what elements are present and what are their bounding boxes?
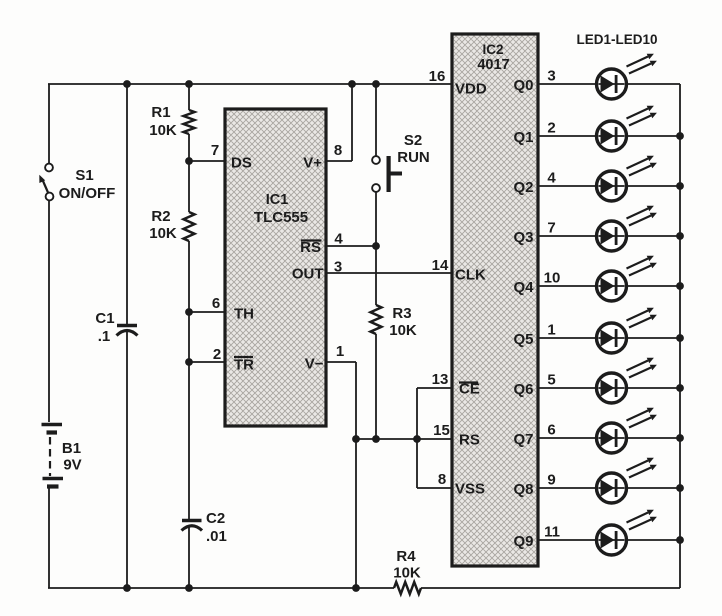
node junction LED2 cathode bus [676, 132, 684, 140]
node junction V- riser bottom rail [352, 584, 360, 592]
svg-text:10K: 10K [393, 565, 421, 582]
wire V+ riser to top rail [351, 84, 353, 161]
wire top supply rail (V+ net) [48, 83, 452, 85]
svg-text:V+: V+ [303, 155, 322, 172]
node junction LED4 cathode bus [676, 232, 684, 240]
svg-text:R1: R1 [151, 104, 170, 121]
svg-text:4: 4 [334, 231, 343, 248]
node junction V- riser / RS15 wire [352, 435, 360, 443]
svg-text:RS: RS [459, 432, 480, 449]
svg-text:13: 13 [432, 371, 449, 388]
node junction LED6 cathode bus [676, 334, 684, 342]
svg-text:Q4: Q4 [514, 279, 535, 296]
wire V+ pin 8 lead [326, 160, 352, 162]
svg-text:15: 15 [433, 422, 450, 439]
svg-text:Q9: Q9 [514, 533, 534, 550]
node junction CE-VSS tie / RS15 wire [413, 435, 421, 443]
wire TR pin 2 lead [189, 361, 225, 363]
node junction LED5 cathode bus [676, 282, 684, 290]
node junction LED7 cathode bus [676, 384, 684, 392]
svg-text:DS: DS [231, 155, 252, 172]
wire left rail lower (battery - down) [48, 488, 50, 588]
svg-text:Q2: Q2 [514, 179, 534, 196]
wire CE/VSS vertical tie [416, 388, 418, 488]
wire Q6 output row [538, 387, 680, 389]
pushbutton S2 top terminal [372, 156, 380, 164]
svg-text:IC2: IC2 [482, 42, 503, 57]
wire Q1 output row [538, 135, 680, 137]
battery B1 plate 4 (short) [47, 484, 59, 488]
wire RS pin 4 lead [326, 245, 376, 247]
node junction LED10 cathode bus [676, 536, 684, 544]
svg-text:4017: 4017 [477, 57, 509, 73]
svg-text:10K: 10K [149, 122, 177, 139]
LED LED4 [597, 206, 657, 251]
battery B1 plate 2 (short) [47, 430, 58, 434]
svg-text:TLC555: TLC555 [254, 209, 308, 226]
LED LED6 [597, 308, 657, 353]
LED LED1 [597, 54, 657, 99]
wire Q7 output row [538, 437, 680, 439]
node junction C1 top rail [123, 80, 131, 88]
wire S2 rail from top rail [375, 84, 377, 156]
node junction C2 bottom rail [185, 584, 193, 592]
wire bottom ground rail left of R4 [48, 587, 394, 589]
wire V- riser to ground [355, 362, 357, 588]
IC U1 TLC555 timer body (IC1) [225, 109, 326, 426]
svg-text:10: 10 [544, 270, 561, 287]
svg-text:6: 6 [212, 295, 220, 312]
node junction LED9 cathode bus [676, 484, 684, 492]
svg-text:R4: R4 [396, 548, 416, 565]
switch S1 lever arrow [43, 181, 48, 193]
svg-text:7: 7 [211, 142, 219, 159]
svg-text:10K: 10K [149, 225, 177, 242]
switch S1 top terminal [45, 164, 53, 172]
wire left rail upper (battery + to S1) [48, 84, 50, 163]
node junction R3 / RS15 wire [372, 435, 380, 443]
capacitor C1 top plate [117, 324, 137, 327]
svg-text:7: 7 [547, 220, 555, 237]
svg-text:C1: C1 [95, 310, 114, 327]
svg-text:1: 1 [547, 322, 555, 339]
svg-text:4: 4 [547, 170, 556, 187]
pushbutton S2 bottom terminal [372, 184, 380, 192]
wire TH pin 6 lead [189, 311, 225, 313]
svg-text:11: 11 [544, 524, 560, 541]
wire DS pin 7 lead [189, 160, 225, 162]
wire C1 branch upper [126, 84, 128, 325]
node junction RS4 / S2 / R3 [372, 242, 380, 250]
resistor R1 [184, 110, 195, 134]
svg-text:9: 9 [547, 472, 555, 489]
svg-text:1: 1 [336, 343, 344, 360]
pushbutton S2 actuator stem [391, 172, 403, 176]
wire R1 rail top segment [188, 84, 190, 110]
node junction TH [185, 308, 193, 316]
capacitor C2 curved plate [182, 526, 203, 531]
node junction TR [185, 358, 193, 366]
LED LED3 [597, 156, 657, 201]
wire LED cathode bus vertical [679, 84, 681, 588]
switch S1 bottom terminal [46, 193, 54, 201]
node junction S2 top rail [372, 80, 380, 88]
battery B1 dashed cell link [49, 437, 51, 476]
svg-text:CLK: CLK [455, 267, 486, 284]
svg-text:R3: R3 [392, 305, 411, 322]
svg-text:.1: .1 [98, 328, 111, 345]
wire Q8 output row [538, 487, 680, 489]
wire C1 branch lower [126, 332, 128, 588]
IC U2 4017 decade counter body (IC2) [452, 34, 538, 566]
svg-text:8: 8 [334, 142, 342, 159]
wire VSS pin 8 lead [417, 487, 452, 489]
wire Q2 output row [538, 185, 680, 187]
node junction V+ riser top rail [348, 80, 356, 88]
svg-text:9V: 9V [63, 457, 81, 474]
svg-text:C2: C2 [206, 510, 225, 527]
svg-text:S1: S1 [75, 167, 93, 184]
wire R1 to DS node [188, 134, 190, 212]
wire OUT pin 3 to CLK pin 14 [326, 272, 452, 274]
svg-text:TR: TR [234, 357, 254, 374]
wire R3 lower lead to RS15 wire [375, 334, 377, 439]
svg-text:VSS: VSS [455, 481, 485, 498]
svg-text:.01: .01 [206, 528, 227, 545]
LED LED2 [597, 106, 657, 151]
wire Q4 output row [538, 285, 680, 287]
wire Q0 output row [538, 83, 680, 85]
pushbutton S2 actuator bar [387, 156, 391, 192]
svg-text:6: 6 [547, 422, 555, 439]
wire S2 bottom to RS4 node [375, 192, 377, 246]
svg-text:Q5: Q5 [514, 331, 534, 348]
svg-text:Q3: Q3 [514, 229, 534, 246]
wire Q5 output row [538, 337, 680, 339]
svg-text:LED1-LED10: LED1-LED10 [576, 32, 657, 47]
capacitor C2 top plate [182, 519, 202, 522]
wire C2 to ground rail [188, 527, 190, 588]
node junction LED3 cathode bus [676, 182, 684, 190]
wire CE pin 13 lead [417, 387, 452, 389]
svg-text:ON/OFF: ON/OFF [59, 185, 116, 202]
svg-text:3: 3 [547, 68, 555, 85]
battery B1 plate 1 (long) [42, 423, 63, 426]
svg-text:10K: 10K [389, 322, 417, 339]
svg-text:16: 16 [429, 68, 446, 85]
wire left rail middle (S1 to battery +) [48, 200, 50, 422]
svg-text:IC1: IC1 [266, 192, 289, 208]
wire R2 to TH/TR/C2 rail [188, 241, 190, 519]
wire bottom ground rail right of R4 [421, 587, 680, 589]
resistor R4 [394, 582, 421, 594]
svg-text:Q8: Q8 [514, 481, 534, 498]
node junction DS / R1 / R2 [185, 157, 193, 165]
LED LED7 [597, 358, 657, 403]
wire Q3 output row [538, 235, 680, 237]
svg-text:Q1: Q1 [514, 129, 534, 146]
svg-text:OUT: OUT [292, 266, 324, 283]
resistor R2 [184, 212, 195, 241]
svg-text:RUN: RUN [397, 149, 430, 166]
node junction LED8 cathode bus [676, 434, 684, 442]
svg-text:S2: S2 [404, 132, 422, 149]
LED LED5 [597, 256, 657, 301]
svg-text:R2: R2 [151, 208, 170, 225]
svg-text:V−: V− [305, 356, 324, 373]
svg-text:2: 2 [547, 120, 555, 137]
svg-text:TH: TH [234, 306, 254, 323]
svg-text:2: 2 [213, 346, 221, 363]
wire RS pin 15 lead [356, 438, 452, 440]
LED LED10 [597, 510, 657, 555]
capacitor C1 curved plate [117, 331, 138, 336]
battery B1 plate 3 (long) [43, 477, 64, 480]
svg-text:14: 14 [432, 257, 449, 274]
svg-text:B1: B1 [62, 440, 81, 457]
resistor R3 [371, 305, 382, 334]
node junction C1 bottom rail [123, 584, 131, 592]
wire V- pin 1 lead [326, 361, 356, 363]
LED LED9 [597, 458, 657, 503]
svg-text:3: 3 [334, 259, 342, 276]
svg-text:Q7: Q7 [514, 431, 534, 448]
LED LED8 [597, 408, 657, 453]
svg-text:8: 8 [438, 471, 446, 488]
svg-text:5: 5 [547, 372, 555, 389]
wire Q9 output row [538, 539, 680, 541]
svg-text:Q0: Q0 [514, 77, 534, 94]
node junction R1 top rail [185, 80, 193, 88]
wire R3 upper lead [375, 246, 377, 305]
svg-text:Q6: Q6 [514, 381, 534, 398]
svg-text:VDD: VDD [455, 81, 487, 98]
